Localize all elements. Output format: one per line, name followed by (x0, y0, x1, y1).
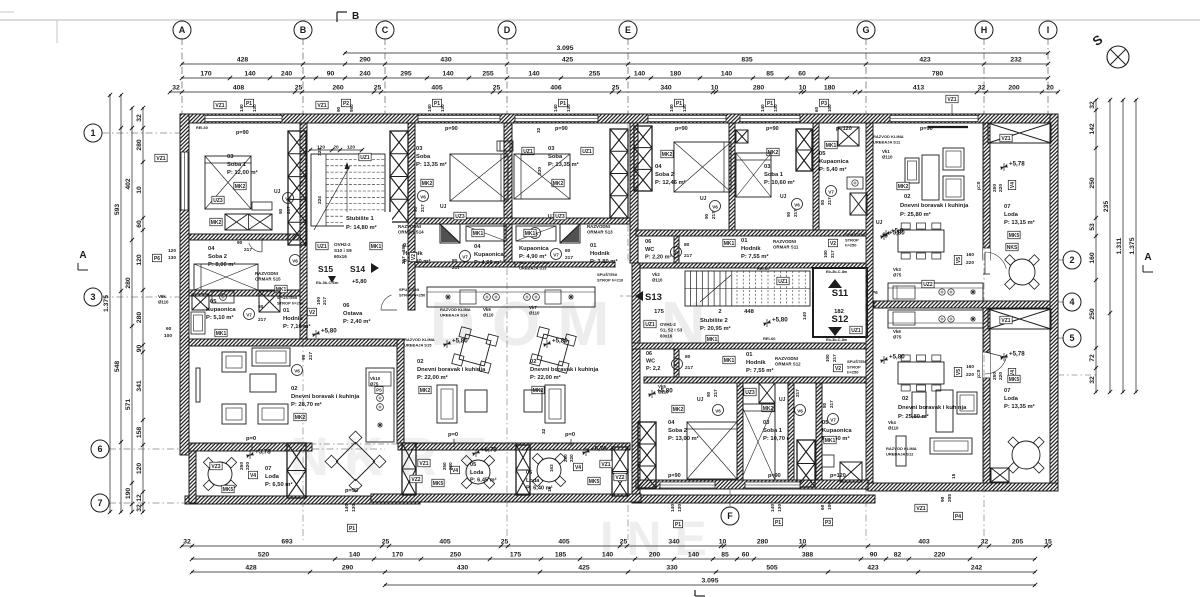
loggia left wall (189, 443, 196, 503)
label MK2 lDE (532, 386, 544, 394)
svg-text:100: 100 (164, 333, 172, 339)
svg-text:60: 60 (742, 552, 750, 559)
wall wc divider low (674, 349, 679, 377)
sofa AB 2 (222, 404, 246, 424)
svg-text:STROP h=210: STROP h=210 (597, 277, 624, 282)
svg-text:140: 140 (721, 71, 733, 78)
svg-text:UJ: UJ (779, 397, 786, 403)
svg-text:90: 90 (413, 206, 418, 212)
svg-text:P6: P6 (154, 256, 160, 262)
sofa GI 1 (943, 148, 964, 170)
svg-text:10: 10 (711, 85, 719, 92)
svg-text:5: 5 (1069, 333, 1074, 343)
svg-text:160: 160 (966, 252, 974, 258)
svg-text:MK1: MK1 (473, 231, 484, 237)
svg-text:217: 217 (832, 354, 837, 362)
svg-text:07: 07 (1004, 388, 1010, 394)
right dim line 4 (1135, 100, 1137, 392)
svg-text:MK1: MK1 (724, 358, 735, 364)
svg-text:217: 217 (684, 253, 692, 259)
svg-text:07: 07 (1004, 204, 1010, 210)
left dim line 2 (120, 95, 122, 512)
svg-text:403: 403 (918, 539, 930, 546)
label MK2 EG (661, 150, 673, 158)
wall lower mid b (788, 383, 794, 480)
svg-text:h=250: h=250 (847, 370, 859, 375)
wall bottom EG->G (640, 495, 875, 503)
section mark B bottom (694, 590, 696, 596)
svg-text:VZ1: VZ1 (916, 506, 925, 512)
loggia CD table (466, 460, 490, 484)
svg-text:250: 250 (992, 184, 998, 192)
bath DE (516, 226, 556, 241)
section mark B top (336, 12, 338, 22)
label UZ3 DE (581, 147, 593, 155)
svg-text:p=90: p=90 (675, 126, 688, 132)
svg-text:217: 217 (827, 197, 832, 205)
svg-text:Ø110: Ø110 (483, 313, 494, 318)
svg-text:WC: WC (646, 359, 655, 365)
svg-text:P: 13,35 m²: P: 13,35 m² (416, 161, 447, 168)
wall CD corridor (415, 218, 630, 224)
svg-text:REI-60: REI-60 (757, 266, 770, 271)
sofa GI low2 (957, 392, 977, 414)
label MK2 low1 (672, 405, 684, 413)
svg-text:12: 12 (136, 494, 143, 502)
svg-text:20: 20 (333, 145, 339, 151)
svg-text:100: 100 (827, 104, 832, 112)
svg-text:175: 175 (510, 552, 522, 559)
plus580 CD (443, 343, 451, 345)
tv AB (196, 368, 200, 402)
label MK1 hEG (723, 239, 735, 247)
svg-text:10: 10 (136, 186, 143, 194)
svg-text:100: 100 (823, 250, 828, 258)
loggia AB labels (210, 462, 222, 470)
svg-text:10: 10 (719, 539, 727, 546)
kitchen GI low (888, 310, 983, 328)
svg-text:220: 220 (569, 454, 574, 462)
svg-text:405: 405 (431, 85, 443, 92)
compass north symbol (1107, 46, 1129, 68)
stair2 bottom wall (632, 343, 866, 349)
svg-text:6: 6 (97, 444, 102, 454)
svg-text:85: 85 (766, 71, 774, 78)
svg-text:h=250: h=250 (845, 243, 857, 248)
svg-text:280: 280 (136, 139, 143, 151)
svg-text:V7: V7 (674, 363, 680, 368)
sink low (820, 455, 834, 467)
svg-text:232: 232 (1010, 57, 1022, 64)
label MK2 CD (421, 179, 433, 187)
svg-text:82: 82 (894, 552, 902, 559)
window top wall (740, 115, 800, 122)
label NKS GI (1006, 243, 1018, 251)
bed DE (514, 154, 570, 199)
svg-text:UJ: UJ (700, 196, 707, 202)
svg-text:Kupaonica: Kupaonica (206, 307, 236, 313)
svg-text:80: 80 (822, 402, 827, 408)
top labels P3 (819, 99, 828, 107)
svg-text:32: 32 (1089, 376, 1096, 384)
svg-text:V4: V4 (1010, 182, 1016, 188)
svg-text:Dnevni boravak i kuhinja: Dnevni boravak i kuhinja (291, 394, 360, 400)
loggia GI plus (1000, 166, 1008, 168)
svg-text:p=90: p=90 (445, 126, 458, 132)
svg-text:190: 190 (125, 488, 132, 500)
stair1 door (381, 295, 392, 310)
svg-text:205: 205 (1012, 539, 1024, 546)
svg-text:402: 402 (125, 178, 132, 190)
grid bubble 7 (91, 494, 109, 512)
svg-text:3: 3 (90, 292, 95, 302)
svg-text:V6: V6 (294, 369, 300, 374)
svg-text:7: 7 (97, 498, 102, 508)
svg-text:1.375: 1.375 (103, 295, 110, 312)
grid bubble 3 (84, 288, 102, 306)
svg-text:+5,80: +5,80 (889, 354, 905, 361)
wall ABliving/CD (397, 339, 404, 443)
svg-text:VZ1: VZ1 (601, 462, 610, 468)
table CD (452, 327, 499, 374)
bottom dim row 3 (192, 571, 1035, 573)
label MK5 GI (1008, 231, 1020, 239)
svg-text:185: 185 (555, 552, 567, 559)
svg-text:158: 158 (136, 427, 143, 439)
svg-text:Ø110: Ø110 (888, 426, 899, 431)
svg-text:VZ1: VZ1 (1001, 136, 1010, 142)
stair1 top dims (310, 149, 362, 151)
sofa CD 1 (437, 385, 457, 423)
svg-text:V6: V6 (794, 203, 800, 208)
svg-text:MK2: MK2 (553, 181, 564, 187)
svg-text:UREĐAJA S11: UREĐAJA S11 (873, 139, 901, 144)
svg-text:P: 7,55 m²: P: 7,55 m² (741, 253, 768, 260)
svg-text:06: 06 (646, 351, 652, 357)
svg-text:C: C (382, 25, 389, 35)
svg-text:220: 220 (934, 552, 946, 559)
svg-text:330: 330 (537, 167, 543, 175)
svg-text:01: 01 (283, 308, 290, 314)
svg-text:90: 90 (301, 354, 307, 360)
bed EG2 (736, 153, 771, 197)
svg-text:220: 220 (966, 372, 974, 378)
svg-text:Hodnik: Hodnik (741, 246, 761, 252)
svg-text:RAZVOD KLIMA: RAZVOD KLIMA (886, 446, 917, 451)
svg-text:NKS: NKS (1007, 245, 1018, 251)
svg-text:80: 80 (685, 354, 691, 360)
svg-text:V7: V7 (673, 251, 679, 256)
svg-text:160: 160 (966, 364, 974, 370)
loggia GI low VZ1 (1000, 316, 1012, 324)
svg-text:MK5: MK5 (589, 479, 600, 485)
S11 box (813, 268, 867, 337)
svg-text:MK2: MK2 (211, 220, 222, 226)
svg-text:STROP h=250: STROP h=250 (277, 300, 304, 305)
sofa GI low3 (930, 438, 972, 454)
svg-text:1: 1 (90, 128, 95, 138)
svg-text:388: 388 (802, 552, 814, 559)
svg-text:RAZVOD KLIMA: RAZVOD KLIMA (440, 307, 471, 312)
tv GI (928, 126, 968, 128)
svg-text:85: 85 (721, 552, 729, 559)
grid line D in plan (506, 123, 508, 540)
svg-text:UJ: UJ (876, 220, 883, 226)
svg-text:217: 217 (685, 365, 693, 371)
wall grid B (300, 123, 307, 345)
grid bubble C (376, 21, 394, 39)
svg-text:Soba 2: Soba 2 (668, 428, 687, 434)
svg-text:02: 02 (904, 194, 910, 200)
svg-text:RAZVODNI: RAZVODNI (775, 356, 798, 361)
pier loggia DE2 (612, 447, 628, 496)
svg-text:P: 13,35 m²: P: 13,35 m² (548, 161, 579, 168)
left dim line 3 (131, 108, 133, 512)
right dim line 2 (1109, 100, 1111, 392)
svg-text:Ø75: Ø75 (370, 382, 379, 387)
svg-text:MK2: MK2 (662, 152, 673, 158)
wall CD bath (415, 262, 515, 267)
svg-text:V5: V5 (956, 369, 962, 375)
svg-text:140: 140 (344, 504, 350, 512)
svg-text:120: 120 (347, 145, 355, 151)
label UZ3 low (744, 388, 756, 396)
bed soba2 AB (194, 264, 258, 290)
svg-text:MK1: MK1 (724, 241, 735, 247)
svg-text:100: 100 (316, 297, 322, 305)
loggia DE table (537, 458, 561, 482)
svg-text:PS: PS (376, 388, 382, 393)
wall lower mid a (737, 383, 743, 480)
svg-text:140: 140 (427, 104, 432, 112)
label MK2 DE (552, 179, 564, 187)
plus580 low mid (648, 393, 656, 395)
svg-text:160: 160 (1089, 252, 1096, 264)
top labels P1 e (674, 99, 683, 107)
svg-text:V6: V6 (715, 409, 721, 414)
svg-text:P: 25,80 m²: P: 25,80 m² (900, 211, 931, 218)
armchair GI (905, 158, 919, 183)
shower AB (192, 294, 209, 310)
svg-text:p=0: p=0 (565, 432, 575, 438)
svg-text:217: 217 (830, 250, 835, 258)
grid bubble 1 (84, 124, 102, 142)
svg-text:B: B (300, 25, 307, 35)
svg-text:03: 03 (416, 146, 423, 152)
svg-text:VZ1: VZ1 (215, 103, 224, 109)
svg-text:p=90: p=90 (920, 126, 933, 132)
top labels P1 f (765, 99, 774, 107)
svg-text:V2: V2 (411, 254, 417, 260)
V2 boxes CD (409, 252, 417, 261)
svg-text:835: 835 (741, 57, 753, 64)
svg-text:p=90: p=90 (768, 473, 781, 479)
bed CD (450, 154, 508, 201)
wardrobe EG2 (736, 130, 748, 143)
svg-text:VZ2: VZ2 (615, 475, 624, 481)
svg-text:120: 120 (136, 463, 143, 475)
svg-text:Ostava: Ostava (343, 311, 363, 317)
svg-text:90: 90 (278, 208, 283, 214)
svg-text:32: 32 (136, 114, 143, 122)
plus580 GI (880, 235, 888, 237)
svg-text:100: 100 (825, 354, 830, 362)
svg-text:UZ1: UZ1 (778, 279, 788, 285)
sofa CD 2 (465, 390, 487, 412)
svg-text:90: 90 (870, 552, 878, 559)
svg-text:P: 13,00 m²: P: 13,00 m² (668, 435, 699, 442)
svg-text:217: 217 (286, 206, 291, 214)
svg-text:02: 02 (291, 386, 297, 392)
svg-text:A: A (1144, 252, 1151, 263)
door V6 EGa (710, 201, 721, 212)
svg-text:p=120: p=120 (830, 473, 846, 479)
sofa DE 1 (545, 385, 565, 423)
svg-text:200: 200 (1008, 85, 1020, 92)
label UZ1 b (850, 326, 862, 334)
svg-text:250: 250 (1089, 308, 1096, 320)
svg-text:32: 32 (536, 127, 542, 133)
svg-text:I: I (1047, 25, 1050, 35)
svg-text:290: 290 (359, 57, 371, 64)
svg-text:+5,80: +5,80 (889, 230, 905, 237)
shower EG (838, 127, 859, 146)
svg-text:205: 205 (947, 494, 953, 502)
svg-text:SPUŠTENI: SPUŠTENI (845, 232, 865, 237)
svg-text:Stubište 1: Stubište 1 (346, 216, 374, 222)
svg-text:Loda: Loda (1004, 396, 1019, 402)
loggia GI low plus (1000, 356, 1008, 358)
svg-text:01: 01 (741, 238, 748, 244)
svg-text:520: 520 (258, 552, 270, 559)
svg-text:140: 140 (239, 104, 244, 112)
pier column G (796, 129, 812, 171)
svg-text:32: 32 (183, 539, 191, 546)
svg-text:A: A (79, 250, 86, 261)
svg-text:05: 05 (210, 299, 217, 305)
dining GI (898, 230, 944, 252)
door V6 DE (530, 228, 541, 239)
svg-text:120: 120 (317, 145, 325, 151)
svg-text:MK1: MK1 (371, 244, 382, 250)
svg-text:REI-60: REI-60 (763, 336, 776, 341)
svg-text:140: 140 (602, 552, 614, 559)
svg-text:UZ2: UZ2 (923, 282, 933, 288)
svg-text:Dnevni boravak i kuhinja: Dnevni boravak i kuhinja (530, 367, 599, 373)
svg-text:MK1: MK1 (826, 143, 837, 149)
grid bubble 5 (1063, 329, 1081, 347)
wall grid H upper (983, 123, 990, 260)
svg-text:428: 428 (245, 565, 257, 572)
svg-text:p=90: p=90 (345, 488, 358, 494)
svg-text:217: 217 (420, 204, 425, 212)
bed EG (674, 142, 731, 192)
loggia DE plus (582, 451, 590, 453)
svg-text:130: 130 (566, 104, 571, 112)
svg-text:MK1: MK1 (707, 337, 718, 343)
svg-text:MK2: MK2 (295, 415, 306, 421)
svg-text:217: 217 (793, 209, 798, 217)
svg-text:OVH2-2: OVH2-2 (334, 242, 351, 247)
svg-text:S10 i S9: S10 i S9 (334, 248, 352, 253)
svg-text:UJ: UJ (548, 214, 555, 220)
wall grid G (866, 123, 873, 490)
svg-text:UZ3: UZ3 (555, 214, 565, 220)
svg-text:60: 60 (814, 106, 819, 112)
svg-text:3.095: 3.095 (556, 45, 573, 52)
svg-text:MK2: MK2 (420, 388, 431, 394)
svg-text:15: 15 (547, 486, 553, 492)
svg-text:MK5: MK5 (1009, 233, 1020, 239)
svg-text:140: 140 (760, 104, 765, 112)
loggia GI VZ1 (1000, 134, 1012, 142)
svg-text:UREĐAJA S12: UREĐAJA S12 (886, 451, 914, 456)
svg-text:217: 217 (258, 317, 266, 323)
svg-text:80: 80 (452, 258, 458, 264)
svg-text:90: 90 (706, 391, 711, 397)
wall EG corridor (636, 230, 866, 236)
wall stair1 east (408, 123, 415, 310)
svg-text:S13: S13 (645, 292, 662, 303)
svg-text:10: 10 (799, 539, 807, 546)
svg-text:950: 950 (349, 104, 354, 112)
svg-text:280: 280 (757, 539, 769, 546)
sofa AB 1 (222, 352, 246, 372)
svg-text:32: 32 (172, 85, 180, 92)
svg-text:03: 03 (227, 154, 234, 160)
svg-text:220: 220 (998, 184, 1004, 192)
svg-text:130: 130 (773, 104, 778, 112)
svg-text:P: 6,50 m²: P: 6,50 m² (265, 481, 292, 488)
sofa DE 2 (524, 390, 542, 412)
svg-text:UZ1: UZ1 (317, 244, 327, 250)
wall grid E upper (630, 123, 638, 263)
pier loggia CD (402, 443, 416, 495)
svg-text:60: 60 (136, 220, 143, 228)
svg-text:142: 142 (1089, 123, 1096, 135)
svg-text:Vk1: Vk1 (882, 149, 890, 154)
top dimension row storey (182, 63, 1048, 65)
svg-text:V6: V6 (712, 205, 718, 210)
svg-text:280: 280 (136, 312, 143, 324)
svg-text:V4: V4 (250, 473, 256, 479)
shower low (840, 462, 862, 482)
svg-text:V7: V7 (462, 255, 468, 260)
label MK1 kupa AB (215, 329, 227, 337)
svg-text:UREĐAJA S13: UREĐAJA S13 (519, 265, 547, 270)
svg-text:90: 90 (704, 213, 709, 219)
label UZ1 a (777, 277, 789, 285)
svg-text:32: 32 (136, 504, 143, 512)
top dimension row detail (170, 91, 1058, 93)
wc AB (259, 291, 280, 312)
svg-text:05: 05 (470, 462, 476, 468)
top labels P1 c (432, 99, 441, 107)
svg-text:250: 250 (992, 372, 998, 380)
svg-text:423: 423 (919, 57, 931, 64)
nightstand CD (497, 141, 510, 151)
svg-text:P: 6,45 m²: P: 6,45 m² (470, 477, 497, 484)
right dim line 1 (1095, 100, 1097, 392)
svg-text:200: 200 (649, 552, 661, 559)
label UZ3 AB (212, 196, 224, 204)
loggia GI low table (1012, 441, 1040, 469)
svg-text:ORMAR S13: ORMAR S13 (587, 230, 613, 235)
svg-text:32: 32 (978, 85, 986, 92)
door V7 wclow (672, 359, 683, 370)
svg-text:SPUŠTENI: SPUŠTENI (399, 287, 419, 292)
svg-text:25: 25 (382, 539, 390, 546)
